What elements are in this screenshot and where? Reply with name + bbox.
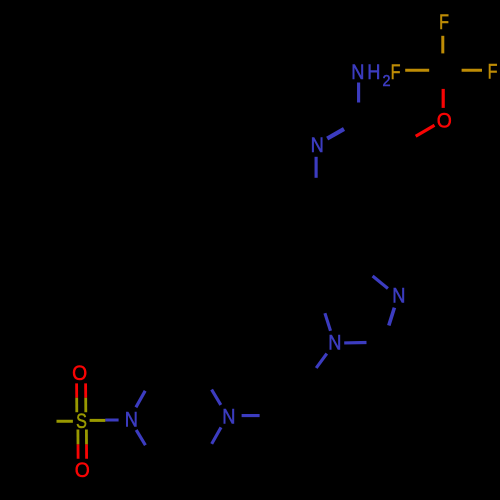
- svg-text:N: N: [222, 405, 235, 429]
- bond F(top)-C (gold half): [441, 36, 444, 54]
- bond S-N (olive half): [90, 419, 106, 422]
- bond C2-NH2 (blue half): [357, 83, 360, 103]
- svg-text:2: 2: [382, 72, 390, 90]
- bond N1-C5 imidazole (blue half): [325, 313, 331, 331]
- node N3 imidazole: [392, 284, 405, 308]
- node F right: [488, 61, 498, 85]
- svg-text:N: N: [125, 408, 138, 432]
- node N piperazine left: [125, 408, 138, 432]
- bond Npip(left)-S (blue half): [105, 419, 118, 422]
- bond F(left)-C (gold half): [405, 69, 429, 72]
- bond Npip(right)-CH2b (blue half): [242, 414, 260, 417]
- node F top: [439, 11, 449, 35]
- bond S-CH3 (olive half): [57, 420, 73, 423]
- svg-text:N: N: [351, 61, 364, 85]
- bond Npip(left)-C top-left (blue half): [136, 391, 145, 408]
- svg-text:F: F: [391, 61, 401, 85]
- bond S=O top line 2 (red half + olive half): [84, 383, 87, 397]
- bond S=O top line 1 (red half + olive half): [75, 383, 78, 397]
- bond S=O bottom line 1 (olive half + red half): [77, 430, 80, 445]
- bond Npip(right)-C top-right (blue half): [212, 390, 221, 405]
- node O ether: [437, 108, 452, 132]
- node N1 imidazole: [328, 331, 341, 355]
- svg-text:F: F: [439, 11, 449, 35]
- node O sulfonyl bottom: [75, 458, 90, 482]
- node N1 pyridine: [311, 133, 324, 157]
- bond N3-C4 imidazole (blue half): [373, 276, 388, 289]
- bond N1-CH2a (blue half): [316, 354, 327, 368]
- bond Npip(left)-C bottom-left (blue half): [136, 430, 145, 445]
- svg-text:O: O: [437, 108, 452, 132]
- svg-text:O: O: [75, 458, 90, 482]
- bond Npip(right)-C bottom-right (blue half): [212, 427, 221, 444]
- svg-text:H: H: [367, 61, 380, 85]
- svg-text:O: O: [72, 361, 87, 385]
- svg-text:S: S: [76, 410, 87, 434]
- bond S=O bottom line 2 (olive half + red half): [85, 430, 88, 445]
- bond N3=C2 imidazole (blue half of double bond): [389, 308, 395, 326]
- node O sulfonyl top: [72, 361, 87, 385]
- bond N1-C2 imidazole (blue half): [344, 341, 366, 345]
- amine NH2: [351, 61, 364, 85]
- node F left: [391, 61, 401, 85]
- bond N1-C6 pyridine (blue half): [315, 157, 318, 178]
- node S: [76, 410, 87, 434]
- svg-text:F: F: [488, 61, 498, 85]
- bond O-C3 (red half): [416, 125, 435, 136]
- svg-text:N: N: [328, 331, 341, 355]
- bond F(right)-C (gold half): [462, 69, 482, 72]
- node N piperazine right: [222, 405, 235, 429]
- bond O-CF3 carbon (red half): [442, 89, 445, 108]
- bond N1=C2 pyridine (blue half of double bond): [327, 129, 344, 139]
- svg-text:N: N: [311, 133, 324, 157]
- svg-text:N: N: [392, 284, 405, 308]
